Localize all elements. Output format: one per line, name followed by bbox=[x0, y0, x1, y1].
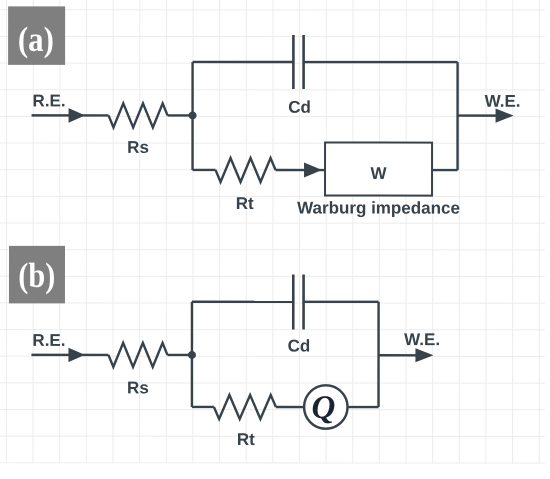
wire: Rt to W box (a) bbox=[276, 169, 326, 171]
svg-text:Cd: Cd bbox=[288, 337, 311, 356]
box W (Warburg element) bbox=[325, 143, 432, 196]
wire: top rail left (b) bbox=[192, 301, 293, 303]
wire: right vertical (a) bbox=[456, 62, 458, 170]
wire: top rail right (b) bbox=[304, 301, 379, 303]
wire: bottom branch left (a) bbox=[193, 169, 216, 171]
arrowhead: output W.E. (b) bbox=[415, 348, 433, 362]
svg-text:Q: Q bbox=[311, 390, 335, 426]
wire: Rs to node (a) bbox=[168, 114, 193, 116]
wire: input R.E. line (b) bbox=[31, 354, 108, 356]
svg-text:Rt: Rt bbox=[236, 194, 254, 213]
wire: top rail left (a) bbox=[193, 61, 294, 63]
wire: top rail right (a) bbox=[304, 61, 458, 63]
svg-text:Warburg impedance: Warburg impedance bbox=[297, 199, 460, 218]
wire: output W.E. (a) bbox=[458, 114, 497, 116]
node junction dot (a) bbox=[189, 111, 197, 119]
svg-text:W.E.: W.E. bbox=[404, 330, 440, 349]
arrowhead: output W.E. (a) bbox=[496, 109, 514, 123]
svg-text:W.E.: W.E. bbox=[485, 92, 521, 111]
node junction dot (b) bbox=[188, 351, 196, 359]
resistor Rt (b) bbox=[214, 395, 276, 419]
panel label box (a) bbox=[8, 6, 65, 65]
wire: Rs to node (b) bbox=[167, 354, 192, 356]
wire: output W.E. (b) bbox=[379, 354, 416, 356]
wire: bottom branch left (b) bbox=[192, 406, 214, 408]
wire: CPE circle to right vertical (b) bbox=[348, 406, 379, 408]
capacitor Cd (a) plates bbox=[293, 35, 303, 89]
svg-text:Rs: Rs bbox=[127, 378, 149, 397]
wire: left vertical (a) bbox=[191, 62, 193, 170]
svg-text:(a): (a) bbox=[18, 20, 54, 59]
arrowhead: into W box (a) bbox=[304, 163, 322, 178]
CPE element circle Q (b) bbox=[304, 385, 347, 428]
wire: right vertical (b) bbox=[377, 302, 379, 407]
svg-text:Cd: Cd bbox=[288, 98, 311, 117]
svg-text:W: W bbox=[371, 164, 388, 183]
svg-text:(b): (b) bbox=[18, 256, 55, 295]
arrowhead: input (b) bbox=[68, 348, 85, 362]
resistor Rt (a) bbox=[216, 158, 276, 182]
svg-text:R.E.: R.E. bbox=[33, 91, 66, 110]
wire: Rt to CPE circle (b) bbox=[276, 406, 304, 408]
wire: left vertical (b) bbox=[191, 302, 193, 407]
svg-text:R.E.: R.E. bbox=[32, 331, 65, 350]
panel label box (b) bbox=[9, 246, 65, 304]
wire: input R.E. line (a) bbox=[32, 114, 109, 116]
resistor Rs (a) bbox=[109, 103, 168, 127]
svg-text:Rs: Rs bbox=[127, 138, 149, 157]
capacitor Cd (b) plates bbox=[293, 275, 303, 330]
svg-text:Rt: Rt bbox=[237, 430, 255, 449]
arrowhead: input (a) bbox=[69, 108, 86, 123]
wire: W box to right vertical (a) bbox=[432, 169, 458, 171]
resistor Rs (b) bbox=[108, 343, 167, 367]
